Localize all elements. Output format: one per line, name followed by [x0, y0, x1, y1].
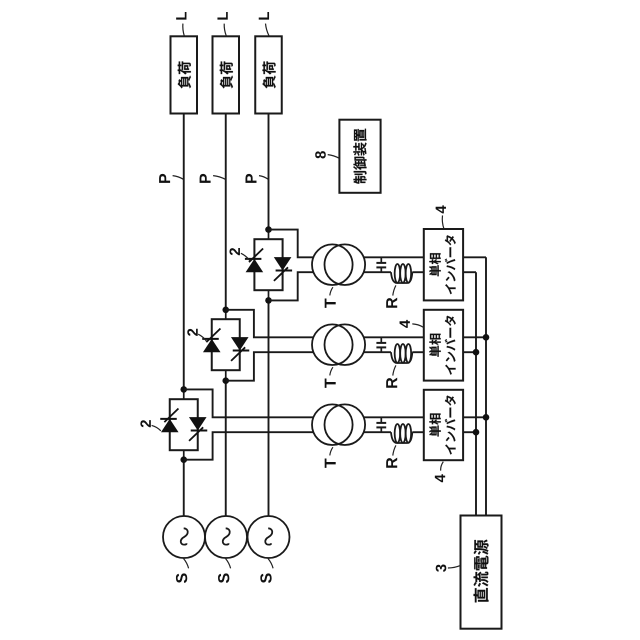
wire reactor R1 to inverter 1 — [412, 271, 424, 273]
wire phase1 from thyristor C bottom node to source S1 — [183, 460, 185, 517]
wire reactor R2 to inverter 2 — [412, 351, 424, 353]
leader from T label to transformer T1 — [330, 287, 333, 295]
leader from 2 to thyristor 2B gate — [198, 334, 207, 342]
junction node A-top — [265, 226, 272, 233]
leader from R label to reactor R2 — [393, 365, 396, 375]
single-phase inverter box 2 — [424, 310, 463, 381]
wire module A bottom node to transformer T1 lower lead — [269, 272, 314, 300]
wire inverter3 positive to right bus — [463, 416, 486, 418]
label R (reactor R1) — [386, 298, 397, 308]
thyristor pair 2A module outline — [254, 239, 282, 290]
wire transformer T2 lower secondary to reactor R2 — [364, 351, 391, 353]
wire inverter1 negative to left bus — [463, 271, 476, 273]
label R (reactor R2) — [386, 378, 397, 388]
wire module A top node to transformer T1 upper lead — [269, 230, 314, 258]
load 1 text FUKA — [178, 61, 191, 88]
AC source S3 (circle with sine) — [248, 516, 290, 558]
single-phase inverter box 3 — [424, 390, 463, 460]
leader from T label to transformer T2 — [330, 367, 333, 375]
wire phase2 from thyristor B bottom node to source S2 — [225, 381, 227, 517]
wire transformer T1 lower secondary to reactor R1 — [364, 271, 391, 273]
reference numeral 3 (DC source) — [436, 564, 447, 571]
inverter 1 text line1 TANSOU — [429, 253, 441, 276]
control device box — [339, 120, 380, 193]
leader from T label to transformer T3 — [330, 447, 333, 455]
junction inverter2 on left bus — [473, 349, 480, 356]
reactor coil R2 — [391, 344, 412, 363]
terminal label L3 — [259, 12, 269, 20]
wire module B bottom node to transformer T2 lower lead — [226, 352, 314, 381]
leader from 8 to control device box — [328, 155, 339, 159]
inverter 2 text line1 TANSOU — [429, 334, 441, 357]
capacitor C3 (shunt between upper and lower leads) — [376, 417, 386, 432]
thyristor 2Ca (left, pointing up) — [160, 409, 178, 433]
reference numeral 4 (inverter 2) — [400, 320, 410, 328]
DC source text CHOKURYU-DENGEN — [474, 540, 489, 603]
leader from S label to source S1 — [184, 559, 189, 569]
DC bus right (positive) down to DC source — [485, 257, 487, 515]
inverter 3 text line1 TANSOU — [429, 413, 441, 436]
thyristor pair 2B module outline — [212, 319, 240, 370]
leader from 3 to DC source box — [448, 566, 460, 568]
reference numeral 2 (module A) — [229, 248, 239, 255]
wire phase2 from load2 down to thyristor B top node — [225, 114, 227, 310]
wire top node C to module C — [183, 389, 185, 399]
terminal label L1 — [176, 12, 186, 20]
leader from L2 to load box 2 — [224, 24, 226, 36]
thyristor pair 2C module outline — [170, 399, 198, 450]
leader from L1 to load box 1 — [183, 24, 184, 36]
label T (transformer T3) — [325, 458, 336, 467]
junction node B-bottom — [222, 377, 229, 384]
wire transformer T2 upper secondary to inverter 2 — [364, 336, 424, 338]
node label P3 — [245, 174, 256, 183]
load box 2 (negative-load symbol) — [213, 36, 240, 113]
wire phase3 from load3 down to thyristor A top node — [268, 114, 270, 230]
leader from P1 to phase wire 1 — [173, 176, 184, 180]
leader from R label to reactor R3 — [393, 445, 396, 455]
transformer T1 (two overlapping circles) — [312, 244, 365, 285]
reference numeral 8 (control device) — [315, 151, 326, 158]
DC power source box — [461, 516, 502, 629]
capacitor C1 (shunt between upper and lower leads) — [376, 257, 386, 272]
wire module C to bottom node C — [183, 450, 185, 460]
wire reactor R3 to inverter 3 — [412, 431, 424, 433]
label S (source S1) — [176, 573, 187, 583]
leader from S label to source S3 — [268, 559, 273, 569]
single-phase inverter box 1 — [424, 229, 463, 300]
label S (source S2) — [218, 573, 229, 583]
load box 1 (negative-load symbol) — [171, 36, 198, 113]
wire inverter2 positive to right bus — [463, 336, 486, 338]
junction node C-bottom — [180, 456, 187, 463]
leader from P3 to phase wire 3 — [259, 176, 268, 180]
DC bus left (negative) down to DC source — [475, 272, 477, 515]
wire module B top node to transformer T2 upper lead — [226, 310, 314, 338]
label T (transformer T2) — [325, 378, 336, 387]
leader from 4 to inverter 2 — [412, 324, 423, 328]
wire phase3 from thyristor A bottom node to source S3 — [268, 300, 270, 516]
inverter 3 text line2 INVERTER — [445, 396, 456, 455]
leader from 4 to inverter 1 — [442, 215, 444, 228]
thyristor 2Ba (left, pointing up) — [202, 329, 220, 353]
wire transformer T1 upper secondary to inverter 1 — [364, 256, 424, 258]
reference numeral 2 (module C) — [140, 420, 150, 427]
transformer T3 (two overlapping circles) — [312, 404, 365, 445]
thyristor 2Aa (left, pointing up) — [245, 249, 263, 273]
wire module B to bottom node B — [225, 370, 227, 381]
load 2 text FUKA — [220, 61, 233, 88]
inverter 2 text line2 INVERTER — [445, 316, 456, 375]
node label P1 — [159, 174, 170, 183]
reactor coil R3 — [391, 424, 412, 443]
leader from 2 to thyristor 2A gate — [241, 253, 250, 261]
wire module C top node to transformer T3 upper lead — [184, 389, 314, 417]
transformer T2 (two overlapping circles) — [312, 324, 365, 365]
leader from 4 to inverter 3 — [441, 462, 444, 471]
thyristor 2Bb (right, pointing down) — [231, 337, 249, 361]
wire top node A to module A — [268, 230, 270, 240]
capacitor C2 (shunt between upper and lower leads) — [376, 337, 386, 352]
wire inverter3 negative to left bus — [463, 431, 476, 433]
reference numeral 4 (inverter 1) — [436, 205, 446, 213]
AC source S2 (circle with sine) — [205, 516, 247, 558]
junction node C-top — [180, 386, 187, 393]
leader from 2 to thyristor 2C gate — [152, 425, 161, 430]
leader from R label to reactor R1 — [393, 285, 396, 295]
junction inverter3 on left bus — [473, 429, 480, 436]
inverter 1 text line2 INVERTER — [445, 235, 456, 294]
wire inverter2 negative to left bus — [463, 351, 476, 353]
wire top node B to module B — [225, 310, 227, 319]
junction node B-top — [222, 307, 229, 314]
label T (transformer T1) — [325, 298, 336, 307]
thyristor 2Ab (right, pointing down) — [274, 257, 292, 281]
wire phase1 from load1 down to thyristor C top node — [183, 114, 185, 390]
leader from P2 to phase wire 2 — [213, 176, 225, 180]
junction node A-bottom — [265, 297, 272, 304]
label R (reactor R3) — [386, 458, 397, 468]
reference numeral 4 (inverter 3) — [435, 474, 445, 482]
wire transformer T3 lower secondary to reactor R3 — [364, 431, 391, 433]
load box 3 (negative-load symbol) — [255, 36, 282, 113]
reference numeral 2 (module B) — [187, 329, 197, 336]
leader from L3 to load box 3 — [266, 24, 270, 36]
wire transformer T3 upper secondary to inverter 3 — [364, 416, 424, 418]
junction inverter2 on right bus — [483, 334, 490, 341]
wire inverter1 positive to right bus — [463, 256, 486, 258]
leader from S label to source S2 — [226, 559, 231, 569]
load 3 text FUKA — [262, 61, 275, 88]
terminal label L2 — [217, 12, 227, 20]
control device text SEIGYO-SOUCHI — [353, 129, 366, 184]
wire module C bottom node to transformer T3 lower lead — [184, 432, 314, 460]
wire module A to bottom node A — [268, 290, 270, 300]
AC source S1 (circle with sine) — [163, 516, 205, 558]
thyristor 2Cb (right, pointing down) — [189, 417, 207, 441]
reactor coil R1 — [391, 264, 412, 283]
label S (source S3) — [260, 573, 271, 583]
junction inverter3 on right bus — [483, 414, 490, 421]
node label P2 — [200, 174, 211, 183]
